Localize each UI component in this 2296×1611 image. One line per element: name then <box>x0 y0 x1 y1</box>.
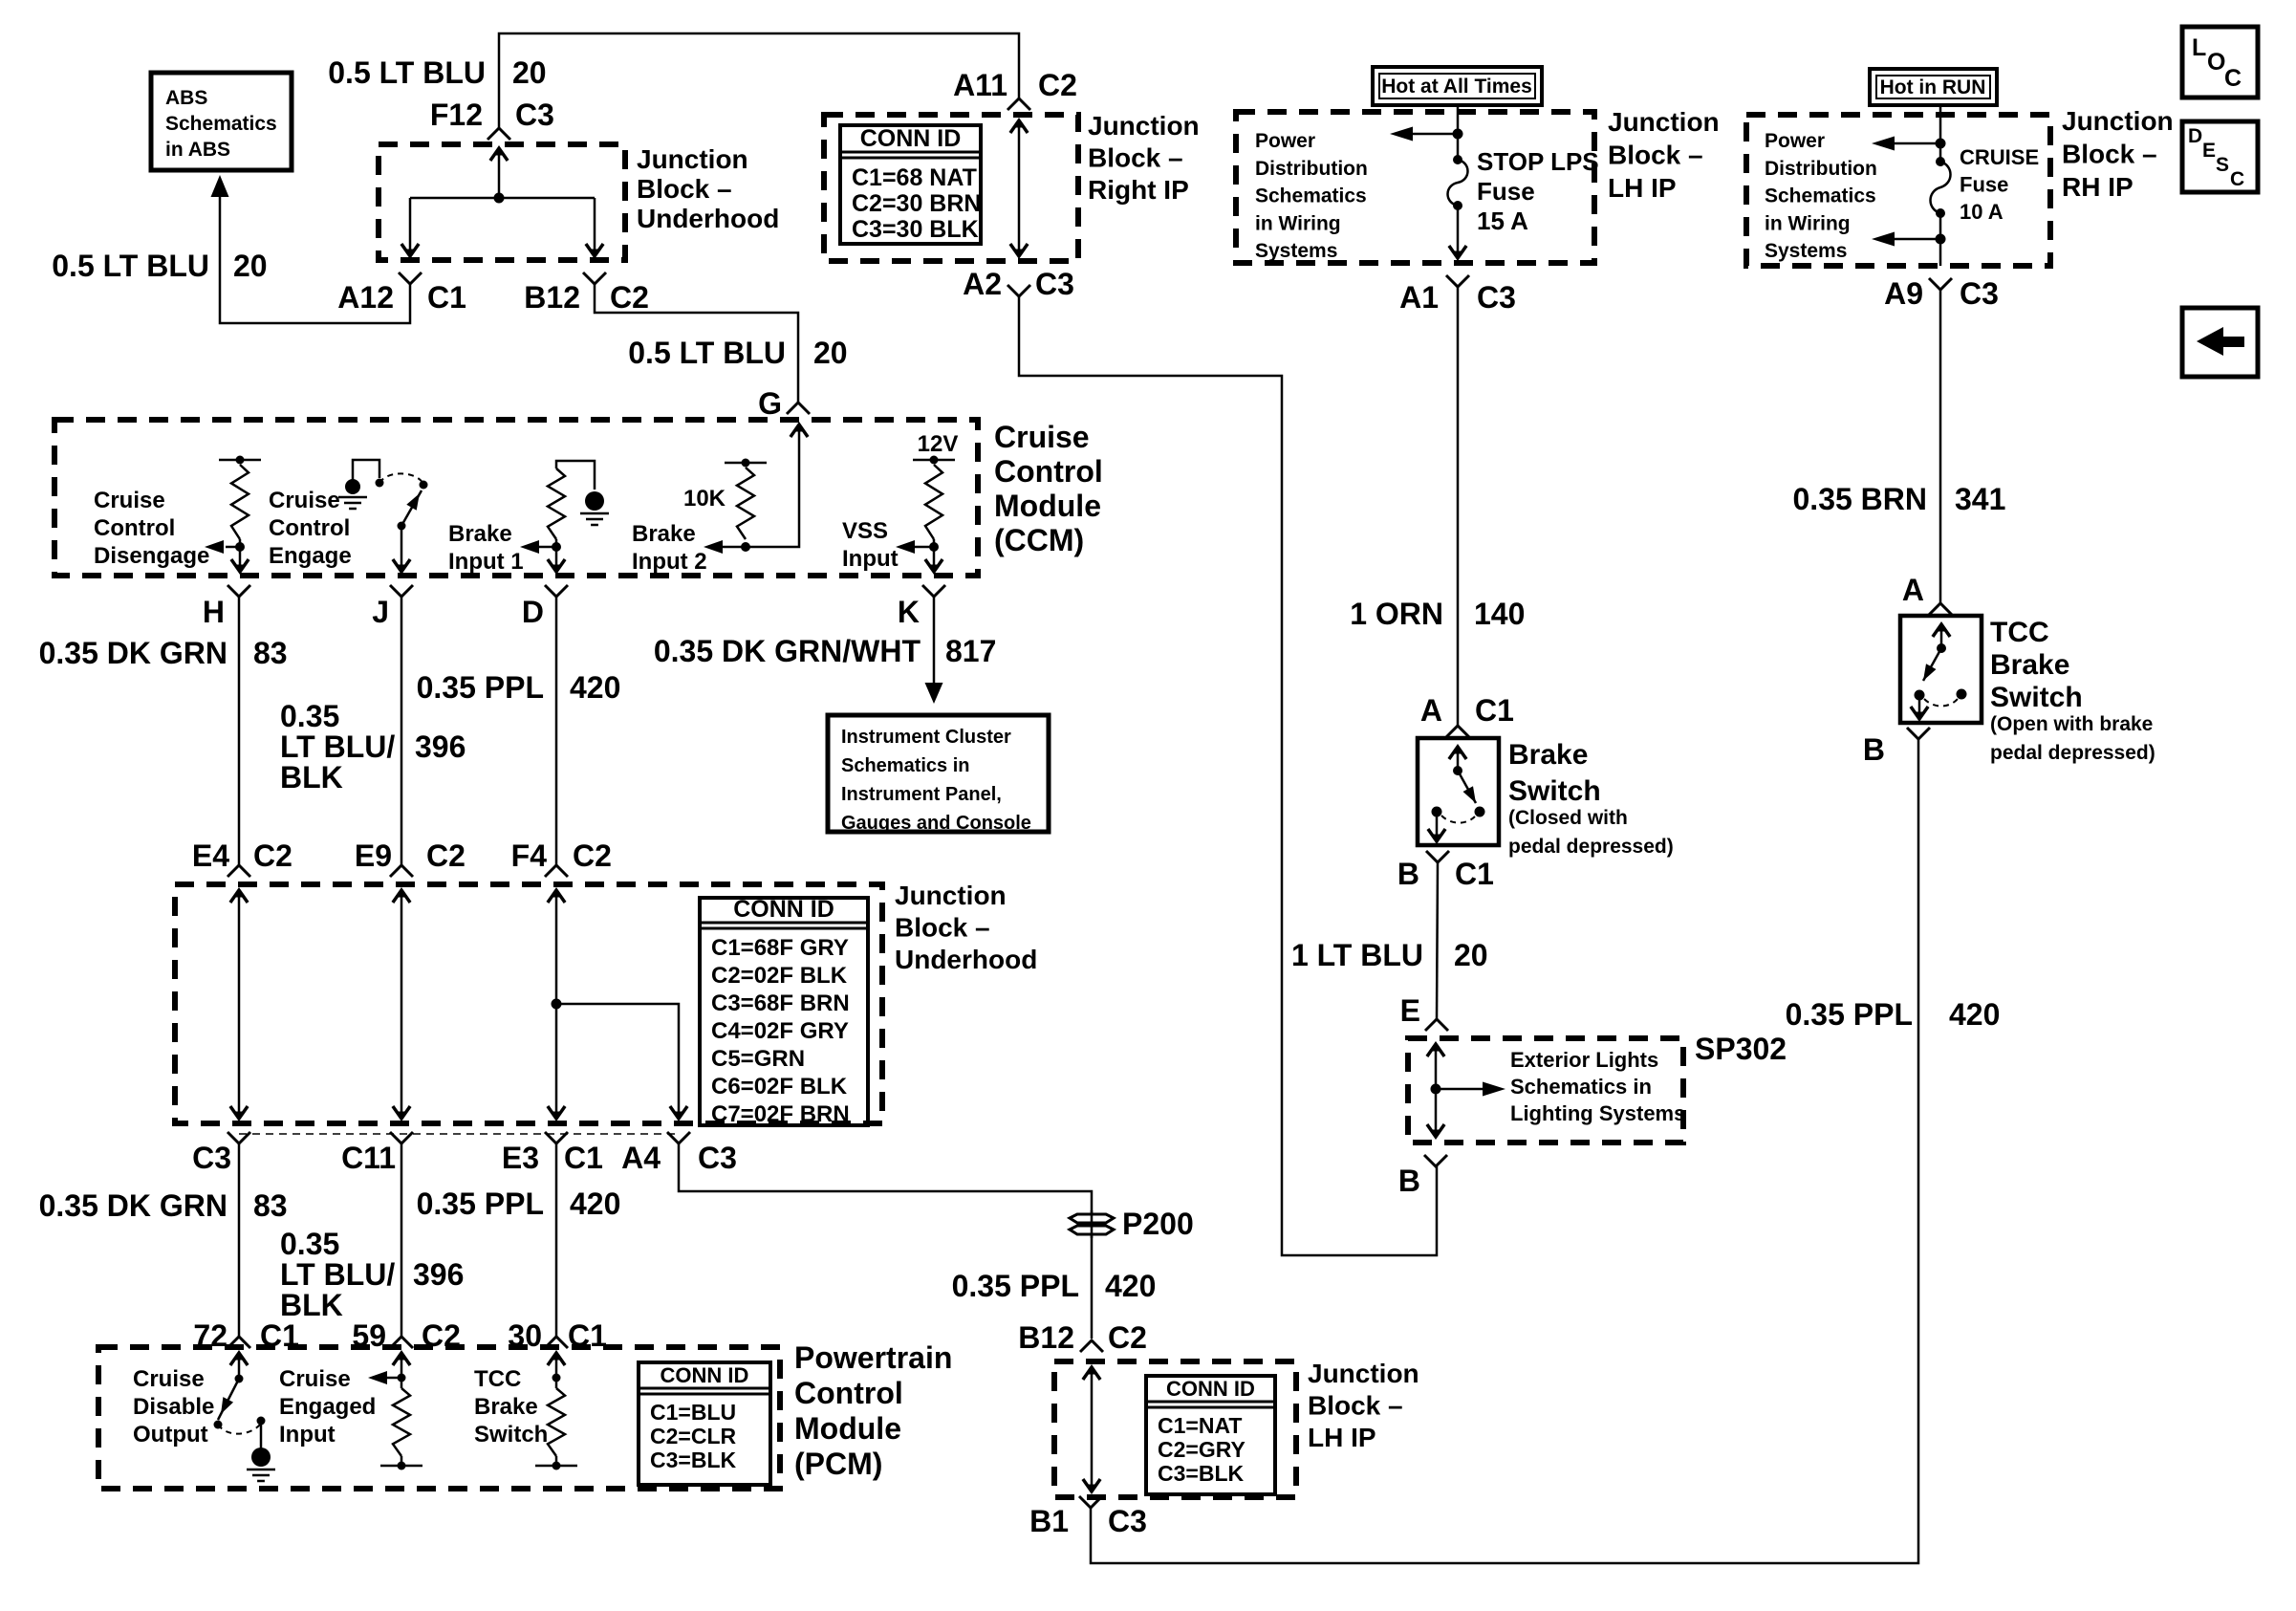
svg-text:Systems: Systems <box>1255 240 1337 262</box>
internal junction dot and crossbar <box>494 193 505 204</box>
svg-text:C3: C3 <box>192 1141 231 1175</box>
svg-text:Block –: Block – <box>2062 140 2157 169</box>
svg-text:0.5 LT BLU: 0.5 LT BLU <box>52 249 209 283</box>
svg-text:VSS: VSS <box>842 518 888 544</box>
wire H to E4, 0.35 DK GRN 83 <box>238 597 241 865</box>
svg-text:Input: Input <box>842 546 899 572</box>
svg-text:(Open with brake: (Open with brake <box>1990 713 2153 735</box>
connector B1/C3 <box>1079 1496 1102 1508</box>
connector 72/C1 <box>227 1337 250 1348</box>
ABS Schematics reference box <box>151 73 292 170</box>
svg-text:0.35 PPL: 0.35 PPL <box>952 1269 1079 1303</box>
svg-text:E3: E3 <box>502 1141 539 1175</box>
svg-text:Cruise: Cruise <box>94 488 165 513</box>
wire: A2/C3 down to SP302 B <box>1019 296 1437 1255</box>
svg-text:Control: Control <box>994 454 1103 489</box>
TCC switch contacts and travel arc <box>1915 690 1925 701</box>
svg-text:F12: F12 <box>430 98 483 132</box>
svg-text:Exterior Lights: Exterior Lights <box>1510 1048 1658 1072</box>
svg-text:BLK: BLK <box>280 1288 343 1322</box>
P200 pass-through grommet <box>1070 1214 1114 1223</box>
svg-text:in Wiring: in Wiring <box>1255 212 1341 234</box>
svg-text:(Closed with: (Closed with <box>1508 807 1628 829</box>
svg-text:1 LT BLU: 1 LT BLU <box>1291 938 1423 972</box>
svg-text:CONN ID: CONN ID <box>661 1363 749 1387</box>
svg-text:C2=02F BLK: C2=02F BLK <box>711 963 848 989</box>
connector E9/C2 <box>390 865 413 877</box>
wire C11 to 59, 0.35 LT BLU/BLK 396 <box>401 1143 403 1337</box>
wire from hot box down through fuse (RH) <box>1939 107 1942 162</box>
wire B to E, 1 LT BLU 20 <box>1437 862 1438 1019</box>
DESC box <box>2182 121 2258 192</box>
connector H <box>227 585 250 597</box>
svg-text:C3=30 BLK: C3=30 BLK <box>852 216 979 243</box>
svg-text:C2: C2 <box>1038 68 1077 102</box>
svg-text:0.5 LT BLU: 0.5 LT BLU <box>628 336 786 370</box>
instrument cluster schematics box <box>828 715 1049 832</box>
svg-text:LT BLU/: LT BLU/ <box>280 1257 395 1292</box>
svg-text:Block –: Block – <box>1088 143 1183 173</box>
connector D <box>545 585 568 597</box>
svg-text:Power: Power <box>1255 130 1315 152</box>
svg-text:420: 420 <box>570 670 620 705</box>
internal wire: F12 leg with up arrow <box>498 148 501 198</box>
connector C11 <box>390 1132 413 1143</box>
svg-text:1 ORN: 1 ORN <box>1350 597 1443 631</box>
connector B12/C2 <box>583 272 606 284</box>
svg-text:C6=02F BLK: C6=02F BLK <box>711 1074 848 1099</box>
branch arrow left top (RH) <box>1889 142 1940 145</box>
svg-text:C5=GRN: C5=GRN <box>711 1046 805 1072</box>
svg-text:Power: Power <box>1765 130 1825 152</box>
svg-text:Brake: Brake <box>448 521 512 547</box>
wire: A12/C1 to ABS box, 0.5 LT BLU 20 <box>220 196 410 323</box>
svg-text:Control: Control <box>94 515 175 541</box>
connector E (SP302) <box>1425 1019 1448 1031</box>
wire from hot box down through fuse <box>1457 107 1460 160</box>
TCC switch internal: pole arrow up <box>1940 626 1943 648</box>
svg-text:E: E <box>1400 993 1420 1028</box>
svg-text:(CCM): (CCM) <box>994 523 1084 557</box>
internal leg to B12 with down arrow <box>594 198 596 254</box>
CCM: brake input 1 resistor with ground <box>556 461 595 490</box>
svg-text:C2=GRY: C2=GRY <box>1158 1437 1245 1462</box>
svg-text:817: 817 <box>945 634 996 668</box>
svg-text:Junction: Junction <box>895 881 1007 910</box>
connector C3 (below mid JB) <box>227 1132 250 1143</box>
svg-text:Schematics: Schematics <box>1765 185 1876 207</box>
svg-text:C3: C3 <box>1035 267 1074 301</box>
svg-text:LT BLU/: LT BLU/ <box>280 729 395 764</box>
svg-text:CONN ID: CONN ID <box>733 896 834 923</box>
wire below fuse with down arrow <box>1457 206 1460 257</box>
svg-text:C2=30 BRN: C2=30 BRN <box>852 190 981 217</box>
connector F4/C2 <box>545 865 568 877</box>
wire: B12/C2 to G, 0.5 LT BLU 20 <box>595 284 798 403</box>
junction block underhood (mid) dashed box <box>175 884 882 1123</box>
svg-text:C1=BLU: C1=BLU <box>650 1400 736 1425</box>
svg-text:20: 20 <box>813 336 848 370</box>
svg-text:C3: C3 <box>698 1141 737 1175</box>
PCM: TCC brake switch resistor <box>555 1354 558 1388</box>
switch arm <box>401 490 422 526</box>
svg-text:0.35 PPL: 0.35 PPL <box>417 1186 544 1221</box>
connector G <box>787 403 810 414</box>
svg-text:420: 420 <box>1949 997 2000 1032</box>
svg-text:LH IP: LH IP <box>1308 1423 1376 1452</box>
svg-text:Input: Input <box>279 1422 336 1448</box>
svg-text:B12: B12 <box>524 280 580 315</box>
internal wire F4-E3 <box>555 889 558 1118</box>
CONN ID table (underhood mid) <box>700 898 868 1125</box>
svg-text:O: O <box>2207 49 2225 76</box>
svg-text:Block –: Block – <box>1608 141 1703 170</box>
branch arrow left bottom (RH) <box>1939 213 1942 266</box>
svg-text:396: 396 <box>415 729 466 764</box>
svg-text:Engaged: Engaged <box>279 1394 376 1420</box>
connector 30/C1 <box>545 1337 568 1348</box>
svg-text:C2: C2 <box>253 838 292 873</box>
junction block underhood (top) dashed box <box>379 144 625 260</box>
wire E3 to 30, 0.35 PPL 420 <box>555 1143 558 1337</box>
connector 59/C2 <box>390 1337 413 1348</box>
svg-text:C3: C3 <box>1108 1504 1147 1538</box>
svg-text:Brake: Brake <box>1990 649 2069 681</box>
svg-text:H: H <box>203 595 225 629</box>
svg-text:C: C <box>2224 65 2242 92</box>
svg-text:E4: E4 <box>192 838 229 873</box>
junction block LH IP dashed box <box>1054 1361 1296 1497</box>
connector B12/C2 (LH IP) <box>1080 1340 1103 1352</box>
connector E4/C2 <box>227 865 250 877</box>
brake switch box <box>1418 738 1499 845</box>
svg-text:ABS: ABS <box>165 87 207 109</box>
svg-text:C3: C3 <box>1477 280 1516 315</box>
CONN ID table (PCM) <box>639 1362 770 1485</box>
svg-text:C1=68 NAT: C1=68 NAT <box>852 164 977 191</box>
svg-text:B: B <box>1398 1164 1420 1198</box>
svg-text:10K: 10K <box>683 486 726 512</box>
SP302 internal wire <box>1435 1045 1438 1136</box>
Hot at All Times box <box>1373 67 1542 105</box>
svg-text:CRUISE: CRUISE <box>1960 145 2039 169</box>
svg-text:Powertrain: Powertrain <box>794 1340 952 1375</box>
svg-text:C1: C1 <box>1455 857 1494 891</box>
svg-text:G: G <box>758 386 782 421</box>
svg-text:Systems: Systems <box>1765 240 1847 262</box>
svg-text:Hot at All Times: Hot at All Times <box>1381 76 1532 98</box>
svg-text:Schematics: Schematics <box>1255 185 1367 207</box>
wire D to F4, 0.35 PPL 420 <box>555 597 558 865</box>
svg-text:Distribution: Distribution <box>1765 158 1877 180</box>
svg-text:A2: A2 <box>963 267 1002 301</box>
SP302 dashed box <box>1408 1038 1683 1143</box>
connector A2/C3 <box>1007 285 1030 296</box>
svg-text:Input 1: Input 1 <box>448 549 524 575</box>
svg-text:0.35 PPL: 0.35 PPL <box>1786 997 1913 1032</box>
svg-text:Junction: Junction <box>1608 107 1720 137</box>
svg-text:Brake: Brake <box>1508 739 1588 771</box>
svg-text:pedal depressed): pedal depressed) <box>1990 742 2155 764</box>
svg-text:S: S <box>2216 154 2229 176</box>
svg-text:Brake: Brake <box>474 1394 538 1420</box>
svg-text:(PCM): (PCM) <box>794 1447 882 1481</box>
svg-text:C: C <box>2230 168 2244 190</box>
internal wire E9-C11 <box>401 889 403 1118</box>
svg-text:Control: Control <box>794 1376 903 1410</box>
svg-text:K: K <box>898 595 920 629</box>
svg-text:Junction: Junction <box>2062 106 2174 136</box>
connector B/C1 (brake switch) <box>1426 851 1449 862</box>
svg-text:A11: A11 <box>953 68 1007 102</box>
connector A11/C2 <box>1007 98 1030 110</box>
wire from brake input 2 up to G <box>746 425 799 547</box>
svg-text:Disengage: Disengage <box>94 543 209 569</box>
svg-text:LH IP: LH IP <box>1608 173 1677 203</box>
CCM: cruise control engage switch with ground <box>345 479 360 494</box>
svg-text:0.35 DK GRN: 0.35 DK GRN <box>39 1188 227 1223</box>
svg-text:C2: C2 <box>426 838 466 873</box>
wire C3 to 72, 0.35 DK GRN 83 <box>238 1143 241 1337</box>
power distribution RH dashed box <box>1746 115 2050 266</box>
wire: A1/C3 down to brake switch A, 1 ORN 140 <box>1457 287 1460 726</box>
wire K to instrument cluster, 0.35 DK GRN/WHT 817 <box>933 597 936 683</box>
svg-text:0.35: 0.35 <box>280 1227 339 1261</box>
svg-text:TCC: TCC <box>474 1366 521 1392</box>
svg-text:83: 83 <box>253 636 288 670</box>
svg-text:C2: C2 <box>573 838 612 873</box>
connector A4/C3 <box>667 1132 690 1143</box>
svg-text:Module: Module <box>994 489 1101 523</box>
svg-text:C1: C1 <box>1475 693 1514 728</box>
connector B (TCC) <box>1907 728 1930 739</box>
internal wire A11-A2 with arrows <box>1018 120 1021 255</box>
svg-text:CONN ID: CONN ID <box>1166 1377 1255 1401</box>
CONN ID table (right IP) <box>840 125 981 244</box>
svg-text:Schematics in: Schematics in <box>1510 1075 1652 1099</box>
thin dashed connector line below mid JB <box>239 1133 675 1135</box>
svg-text:C3=BLK: C3=BLK <box>650 1448 736 1472</box>
svg-text:Instrument Panel,: Instrument Panel, <box>841 784 1002 805</box>
svg-text:Schematics: Schematics <box>165 113 277 135</box>
svg-text:Instrument Cluster: Instrument Cluster <box>841 727 1011 748</box>
svg-text:Output: Output <box>133 1422 208 1448</box>
branch arrow left (LH) <box>1407 133 1458 136</box>
svg-text:L: L <box>2192 34 2206 61</box>
svg-text:STOP LPS: STOP LPS <box>1477 147 1599 176</box>
svg-text:C3: C3 <box>515 98 554 132</box>
PCM: cruise engaged input resistor <box>401 1354 403 1388</box>
svg-text:Underhood: Underhood <box>895 945 1037 974</box>
svg-text:Block –: Block – <box>637 174 732 204</box>
svg-text:A12: A12 <box>337 280 394 315</box>
CONN ID table (LH IP) <box>1146 1376 1275 1494</box>
svg-text:Fuse: Fuse <box>1477 177 1535 206</box>
svg-text:E: E <box>2202 140 2216 162</box>
svg-text:A1: A1 <box>1399 280 1439 315</box>
svg-text:A: A <box>1902 573 1924 607</box>
svg-text:A9: A9 <box>1884 276 1923 311</box>
svg-text:12V: 12V <box>918 431 959 457</box>
svg-text:C2: C2 <box>610 280 649 315</box>
svg-text:RH IP: RH IP <box>2062 172 2134 202</box>
svg-text:in Wiring: in Wiring <box>1765 212 1851 234</box>
svg-text:Right IP: Right IP <box>1088 175 1189 205</box>
svg-text:BLK: BLK <box>280 760 343 795</box>
svg-text:20: 20 <box>233 249 268 283</box>
connector J <box>390 585 413 597</box>
svg-text:C3=68F BRN: C3=68F BRN <box>711 991 850 1016</box>
power distribution LH dashed box <box>1236 112 1594 263</box>
svg-text:Gauges and Console: Gauges and Console <box>841 813 1031 834</box>
svg-text:20: 20 <box>512 55 547 90</box>
brake switch exit arrow down <box>1436 812 1439 839</box>
connector B (SP302) <box>1424 1155 1447 1166</box>
svg-text:C2: C2 <box>1108 1320 1147 1355</box>
svg-text:B: B <box>1863 732 1885 767</box>
svg-text:Cruise: Cruise <box>994 420 1090 454</box>
svg-text:Cruise: Cruise <box>269 488 340 513</box>
cruise control module (CCM) dashed box <box>54 420 978 576</box>
svg-text:Switch: Switch <box>474 1422 548 1448</box>
svg-text:C2=CLR: C2=CLR <box>650 1424 736 1448</box>
wire TCC B down to bottom to B1, 0.35 PPL 420 <box>1091 739 1918 1563</box>
svg-text:C7=02F BRN: C7=02F BRN <box>711 1101 850 1127</box>
svg-text:Control: Control <box>269 515 350 541</box>
svg-text:Switch: Switch <box>1990 682 2083 713</box>
svg-text:20: 20 <box>1454 938 1488 972</box>
wire J to E9, 0.35 LT BLU/BLK 396 <box>401 597 403 865</box>
internal wire B12-B1 <box>1091 1368 1094 1491</box>
TCC switch arm <box>1923 648 1941 681</box>
svg-text:0.5 LT BLU: 0.5 LT BLU <box>328 55 486 90</box>
svg-text:Lighting Systems: Lighting Systems <box>1510 1101 1685 1125</box>
TCC switch exit arrow down <box>1918 695 1921 717</box>
connector E3/C1 <box>545 1132 568 1143</box>
svg-text:A: A <box>1420 693 1442 728</box>
svg-text:A4: A4 <box>621 1141 661 1175</box>
svg-text:83: 83 <box>253 1188 288 1223</box>
svg-text:Junction: Junction <box>1308 1359 1419 1388</box>
svg-text:Block –: Block – <box>1308 1391 1403 1421</box>
svg-text:C11: C11 <box>341 1141 396 1175</box>
svg-text:341: 341 <box>1955 482 2005 516</box>
svg-text:0.35 BRN: 0.35 BRN <box>1793 482 1928 516</box>
svg-text:Junction: Junction <box>1088 111 1200 141</box>
svg-text:Hot in RUN: Hot in RUN <box>1880 76 1986 98</box>
svg-text:C3: C3 <box>1960 276 1999 311</box>
svg-text:Block –: Block – <box>895 913 990 943</box>
svg-text:Engage: Engage <box>269 543 352 569</box>
wire A4/C3 to P200 to B12 <box>679 1143 1092 1339</box>
svg-text:140: 140 <box>1474 597 1525 631</box>
svg-text:Schematics in: Schematics in <box>841 755 970 776</box>
svg-text:Disable: Disable <box>133 1394 214 1420</box>
svg-text:B12: B12 <box>1018 1320 1074 1355</box>
svg-text:E9: E9 <box>355 838 392 873</box>
brake switch internal: pole arrow up <box>1457 749 1460 771</box>
svg-text:D: D <box>2188 125 2202 147</box>
TCC brake switch box <box>1900 616 1982 723</box>
svg-text:F4: F4 <box>511 838 548 873</box>
brake switch arm <box>1458 771 1476 803</box>
svg-text:Distribution: Distribution <box>1255 158 1368 180</box>
svg-text:10 A: 10 A <box>1960 200 2004 224</box>
svg-text:J: J <box>372 595 389 629</box>
Hot in RUN box <box>1870 69 1997 105</box>
svg-text:C1: C1 <box>427 280 466 315</box>
svg-text:in ABS: in ABS <box>165 139 230 161</box>
brake switch contacts and travel arc <box>1432 807 1442 817</box>
svg-text:CONN ID: CONN ID <box>860 125 962 152</box>
svg-text:0.35 DK GRN/WHT: 0.35 DK GRN/WHT <box>654 634 921 668</box>
connector A/C1 (brake switch) <box>1446 726 1469 737</box>
svg-text:pedal depressed): pedal depressed) <box>1508 836 1674 858</box>
svg-text:C3=BLK: C3=BLK <box>1158 1461 1244 1486</box>
svg-text:396: 396 <box>413 1257 464 1292</box>
svg-text:C1=68F GRY: C1=68F GRY <box>711 935 849 961</box>
svg-text:0.35: 0.35 <box>280 699 339 733</box>
powertrain control module (PCM) dashed box <box>98 1347 780 1489</box>
svg-text:0.35 DK GRN: 0.35 DK GRN <box>39 636 227 670</box>
junction block right IP dashed box <box>824 115 1078 261</box>
svg-text:Module: Module <box>794 1411 901 1446</box>
connector F12/C3 <box>487 128 510 140</box>
svg-text:C1: C1 <box>564 1141 603 1175</box>
svg-text:P200: P200 <box>1122 1207 1194 1241</box>
svg-text:Switch: Switch <box>1508 775 1601 807</box>
svg-text:Underhood: Underhood <box>637 204 779 233</box>
svg-text:C4=02F GRY: C4=02F GRY <box>711 1018 849 1044</box>
svg-text:0.35 PPL: 0.35 PPL <box>417 670 544 705</box>
CCM: brake input 2, 10K resistor <box>725 462 767 465</box>
internal leg to A12 with down arrow <box>409 198 412 254</box>
svg-text:Input 2: Input 2 <box>632 549 707 575</box>
svg-text:Brake: Brake <box>632 521 696 547</box>
svg-text:SP302: SP302 <box>1695 1032 1787 1066</box>
internal branch to A4 <box>552 999 562 1010</box>
connector K <box>922 585 945 597</box>
svg-text:Junction: Junction <box>637 144 748 174</box>
svg-text:420: 420 <box>570 1186 620 1221</box>
CCM: cruise control disengage resistor <box>219 459 261 462</box>
svg-text:B1: B1 <box>1029 1504 1069 1538</box>
wire: A9/C3 down to TCC brake switch A, 0.35 BRN 341 <box>1939 290 1942 603</box>
PCM: cruise disable output switch <box>238 1354 241 1379</box>
connector A1/C3 <box>1446 275 1469 287</box>
svg-text:B: B <box>1397 857 1419 891</box>
svg-text:420: 420 <box>1105 1269 1156 1303</box>
svg-text:TCC: TCC <box>1990 617 2049 648</box>
svg-text:15 A: 15 A <box>1477 207 1528 235</box>
fuse CRUISE 10A <box>1936 157 1945 166</box>
svg-text:D: D <box>522 595 544 629</box>
svg-text:Fuse: Fuse <box>1960 173 2008 197</box>
svg-text:Cruise: Cruise <box>279 1366 351 1392</box>
LOC box <box>2182 27 2258 98</box>
connector A12/C1 <box>399 272 422 284</box>
internal wire E4-C3 <box>238 889 241 1118</box>
fuse STOP LPS 15A <box>1453 155 1462 164</box>
svg-text:Cruise: Cruise <box>133 1366 205 1392</box>
wire: F12/C3 to A11/C2, 0.5 LT BLU 20 <box>499 33 1019 128</box>
connector A (TCC) <box>1929 603 1952 615</box>
svg-text:C1=NAT: C1=NAT <box>1158 1413 1242 1438</box>
back arrow box <box>2182 308 2258 377</box>
connector A9/C3 <box>1929 278 1952 290</box>
